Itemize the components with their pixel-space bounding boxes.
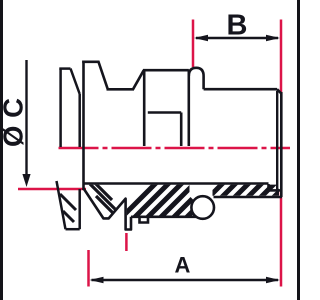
gasket circle bbox=[191, 196, 214, 219]
flange face vertical bbox=[82, 61, 85, 191]
ferrule lip section bottom bbox=[66, 228, 80, 231]
body top line bbox=[107, 88, 135, 91]
ferrule lip top edge bbox=[59, 67, 70, 70]
ferrule lip left face bbox=[59, 69, 62, 147]
thread root bottom line bbox=[214, 196, 283, 199]
ferrule lip section inner wall bbox=[78, 189, 81, 229]
section main bottom edge bbox=[131, 216, 197, 219]
dimension C arrowhead down bbox=[22, 174, 30, 187]
svg-text:Ø C: Ø C bbox=[0, 98, 29, 147]
dimension A extension line left (red) bbox=[87, 250, 90, 287]
thread end dome bbox=[189, 68, 204, 89]
dimension B extension line right (red) bbox=[280, 20, 283, 93]
dimension B arrow line bbox=[196, 37, 278, 39]
red centerline bbox=[59, 147, 291, 149]
hex inner line vertical bbox=[180, 113, 183, 147]
thread end chamfer line bbox=[276, 91, 278, 190]
dimension B extension line left (red) bbox=[192, 20, 195, 68]
right end face bbox=[277, 89, 281, 197]
dimension A arrowhead right bbox=[266, 277, 280, 283]
counterbore bottom edge bbox=[269, 189, 281, 192]
dimension A arrowhead left bbox=[90, 277, 104, 283]
dimension B arrowhead right bbox=[266, 35, 280, 41]
svg-text:B: B bbox=[227, 9, 248, 41]
ferrule lip section left slant bbox=[57, 181, 66, 229]
hex inner line horizontal bbox=[148, 111, 181, 114]
left border bar bbox=[0, 0, 3, 300]
collar rise slant bbox=[133, 70, 144, 89]
flange top edge and chamfer bbox=[82, 62, 108, 90]
section bottom tab bbox=[140, 217, 149, 223]
counterbore step bbox=[267, 184, 270, 190]
red surface line for Ø C bbox=[18, 188, 86, 191]
dimension A arrow line bbox=[92, 279, 279, 281]
red tick at lip lower edge bbox=[125, 233, 128, 251]
collar top edge bbox=[143, 69, 189, 72]
bore line bbox=[84, 182, 269, 185]
thread crest line bbox=[204, 88, 277, 91]
dimension A extension line right (red) bbox=[280, 191, 283, 287]
right border bar bbox=[297, 0, 300, 300]
section boot zigzag bbox=[83, 188, 131, 230]
ferrule lip section hatch bbox=[60, 194, 76, 222]
ferrule lip top taper bbox=[71, 69, 80, 94]
ferrule groove wall bbox=[78, 94, 81, 147]
dimension C leader line bbox=[25, 60, 27, 176]
svg-text:A: A bbox=[175, 253, 191, 278]
collar left inner vertical bbox=[143, 70, 146, 146]
dome left vertical bbox=[188, 70, 191, 147]
dimension B arrowhead left bbox=[194, 35, 208, 41]
